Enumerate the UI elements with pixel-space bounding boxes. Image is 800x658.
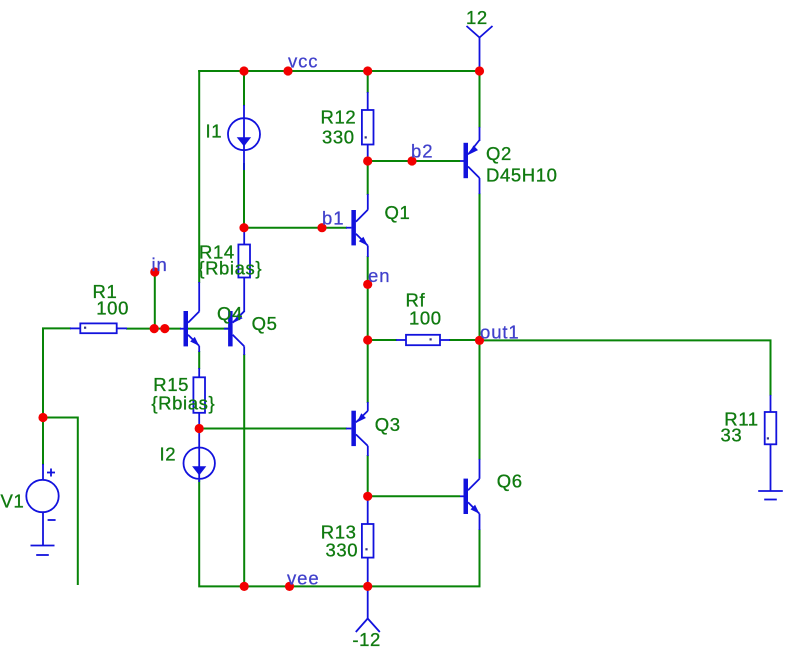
resistor R13 xyxy=(362,496,374,586)
junction in label anchor xyxy=(150,267,159,276)
junction vcc label anchor xyxy=(283,66,292,75)
ground at R11 xyxy=(758,491,783,500)
wire R1 to Q4 base xyxy=(126,328,181,330)
ground at V1 xyxy=(31,546,55,556)
junction en-Rf xyxy=(363,335,372,344)
svg-text:{Rbias}: {Rbias} xyxy=(198,258,262,279)
svg-text:{Rbias}: {Rbias} xyxy=(151,393,215,414)
svg-text:-12: -12 xyxy=(352,629,381,650)
wire left rail vcc to Q4 collector xyxy=(198,70,200,283)
wire Rf right lead to out1 xyxy=(449,339,480,341)
svg-text:Q2: Q2 xyxy=(486,143,512,164)
svg-text:b1: b1 xyxy=(322,208,344,229)
current source I1 xyxy=(228,105,260,170)
junction en label anchor xyxy=(363,280,372,289)
junction R15-I2 xyxy=(195,424,204,433)
svg-text:Q6: Q6 xyxy=(497,471,523,492)
junction node b2 at R12 xyxy=(363,156,372,165)
junction vcc-I1 xyxy=(239,66,248,75)
wire vee rail xyxy=(199,480,479,586)
resistor R14 xyxy=(238,228,250,312)
wire Q3 base row xyxy=(199,428,347,430)
wire Q1 emitter to en to Rf xyxy=(367,256,369,340)
wire en node to Rf left lead xyxy=(368,339,397,341)
svg-text:in: in xyxy=(152,254,168,275)
junction vcc-R12 xyxy=(363,66,372,75)
resistor R1 xyxy=(70,323,127,333)
junction vee-R13 xyxy=(363,582,372,591)
wire b1 row to Q1 base xyxy=(244,227,347,229)
junction V1-R1 xyxy=(38,413,47,422)
wire Q4 base to Q5 base xyxy=(188,328,229,330)
junction out1 xyxy=(475,336,484,345)
wire vcc to Q2 emitter xyxy=(479,71,481,128)
transistor Q6 xyxy=(460,459,480,530)
wire Q2 collector to out1 xyxy=(479,193,481,340)
junction vcc right supply xyxy=(475,66,484,75)
current source I2 xyxy=(184,429,215,482)
wire R13 node to Q6 base xyxy=(368,495,460,497)
wire V1 node to V1 xyxy=(42,418,44,466)
junction I1-R14 xyxy=(239,223,248,232)
svg-text:100: 100 xyxy=(96,297,129,318)
wire Rf node down to Q3 emitter xyxy=(367,340,369,403)
junction b2 label anchor xyxy=(407,156,416,165)
svg-text:Q4: Q4 xyxy=(217,303,243,324)
wire in label to base row xyxy=(154,272,156,329)
transistor Q3 xyxy=(346,402,368,456)
transistor Q4 xyxy=(180,282,199,352)
transistor Q5 xyxy=(224,311,244,355)
wire Q4 emitter to R15 xyxy=(198,351,200,369)
wire vcc to I1 xyxy=(243,71,245,106)
wire R12 node to Q1 collector xyxy=(367,161,369,195)
svg-text:I1: I1 xyxy=(206,120,223,141)
wire out1 to R11 xyxy=(480,340,771,396)
svg-text:vee: vee xyxy=(287,568,320,589)
resistor Rf xyxy=(396,335,450,345)
resistor R12 xyxy=(362,92,374,161)
svg-text:330: 330 xyxy=(322,127,355,148)
svg-text:100: 100 xyxy=(409,307,442,328)
svg-text:out1: out1 xyxy=(480,322,520,343)
svg-text:12: 12 xyxy=(466,7,488,28)
svg-text:I2: I2 xyxy=(160,444,177,465)
svg-text:Q3: Q3 xyxy=(375,414,401,435)
power supply +12 xyxy=(467,26,493,71)
resistor R15 xyxy=(193,368,205,429)
resistor R11 xyxy=(765,395,777,491)
junction R1-Q4 base xyxy=(160,324,169,333)
wire Q5 collector to vee xyxy=(243,354,245,587)
transistor Q2 xyxy=(460,127,480,194)
svg-text:330: 330 xyxy=(326,540,359,561)
wire stub from V1 node xyxy=(43,418,78,586)
junction in-R1 xyxy=(150,324,159,333)
wire Q3 collector to R13 node xyxy=(367,455,369,497)
transistor Q1 xyxy=(346,194,368,257)
junction vee-Q5 xyxy=(240,582,249,591)
wire b2 row R12 to Q2 base xyxy=(368,160,460,162)
svg-text:33: 33 xyxy=(721,425,743,446)
wire I1 to node b1 row xyxy=(243,163,245,229)
svg-text:V1: V1 xyxy=(1,491,25,512)
wire R1 left to V1 plus xyxy=(43,328,71,417)
svg-text:en: en xyxy=(368,265,390,286)
svg-text:Q5: Q5 xyxy=(252,313,278,334)
wire vcc rail xyxy=(198,70,480,72)
wire vcc to R12 xyxy=(367,71,369,93)
junction vee label anchor xyxy=(285,582,294,591)
svg-text:R12: R12 xyxy=(321,107,357,128)
svg-text:Q1: Q1 xyxy=(385,202,411,223)
power supply -12 xyxy=(356,586,380,632)
svg-text:b2: b2 xyxy=(411,141,433,162)
svg-text:vcc: vcc xyxy=(288,51,318,72)
svg-text:D45H10: D45H10 xyxy=(486,165,557,186)
junction b1 label anchor xyxy=(317,223,326,232)
junction Q3-R13 xyxy=(363,492,372,501)
voltage source V1 xyxy=(26,464,58,546)
wire out1 to Q6 collector xyxy=(479,340,481,460)
